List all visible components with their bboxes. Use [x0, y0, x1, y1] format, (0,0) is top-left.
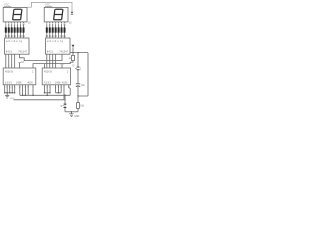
resistor network RN2 (7 segment resistors): [46, 24, 66, 38]
VCC stub on U3 pin 16: [18, 62, 24, 68]
svg-text:4026: 4026: [27, 81, 33, 84]
ground symbol GND1: [5, 93, 15, 100]
svg-text:6283: 6283: [44, 81, 51, 84]
svg-text:GND: GND: [74, 116, 79, 118]
resistor R3: [77, 96, 85, 112]
VCC arrow terminal at DIS2 anode: [71, 12, 74, 15]
svg-text:4026: 4026: [62, 81, 68, 84]
BCD to 7-seg decoder U1 (7447): [5, 38, 30, 54]
wire: U2 BCD lines down to U4: [47, 54, 56, 68]
svg-text:74LS47: 74LS47: [59, 51, 68, 54]
wire: U3 pin to right clock chain: [33, 61, 73, 68]
wire: U1 ripple-blanking run to U2: [20, 54, 62, 60]
pin numbers above decoder (RN2): [46, 36, 67, 38]
ground symbol GND2: [69, 112, 79, 118]
wire: VCC common-anode rail across top: [27, 2, 72, 11]
capacitor C1: [76, 84, 86, 96]
svg-text:6283: 6283: [5, 81, 12, 84]
junction dot at C1 bottom: [77, 95, 78, 96]
wire: reset rail y99.8: [14, 85, 65, 100]
7-segment display DIS2: [44, 7, 68, 23]
BCD to 7-seg decoder U2 (7447): [46, 38, 71, 54]
wire: U3 ground-group pins to rail: [5, 85, 15, 93]
svg-text:abcdefg: abcdefg: [47, 39, 64, 43]
decade counter U3 (4026B): [3, 68, 36, 85]
junction dots on VCC feed: [72, 52, 78, 53]
VCC arrow symbol right column: [72, 45, 75, 53]
svg-text:74LS47: 74LS47: [18, 51, 27, 54]
pin numbers under U4: [44, 87, 70, 89]
junction dots on y95.3 rail: [22, 92, 66, 100]
wire: U4 ground pins short rail y92.8: [56, 85, 62, 93]
pin numbers above decoder (RN1): [5, 36, 26, 38]
wire: bottom rail joining S2 and R3: [65, 111, 78, 113]
svg-text:1458: 1458: [55, 81, 61, 84]
junction dot on U4 ground rail: [58, 92, 59, 93]
svg-text:1458: 1458: [16, 81, 22, 84]
VCC symbol for DIS2: [45, 4, 52, 7]
wire: VCC feed from U2 right to rail: [70, 53, 88, 96]
svg-text:8421: 8421: [47, 50, 54, 54]
svg-text:4026 B: 4026 B: [44, 70, 52, 73]
7-segment display DIS1: [3, 7, 27, 23]
resistor R1 (pull-up): [68, 53, 74, 61]
VCC stub on U4 pin 16: [61, 65, 64, 68]
resistor network RN1 (7 segment resistors): [5, 24, 25, 38]
svg-text:4026 B: 4026 B: [5, 70, 13, 73]
decade counter U4 (4026B): [42, 68, 70, 85]
svg-text:abcdefg: abcdefg: [6, 39, 23, 43]
VCC symbol for DIS1: [4, 4, 11, 7]
wire: U1 BCD lines down to U3: [6, 54, 15, 68]
svg-text:8421: 8421: [6, 50, 13, 54]
pin numbers under display DIS1: [5, 23, 31, 27]
wire: shared rail y95.3 across both counters: [20, 85, 70, 96]
junction dot bottom rail: [71, 111, 72, 112]
switch S1 on clock line: [75, 53, 82, 84]
pin numbers under U3: [4, 87, 34, 89]
junction dot clock branch: [64, 95, 65, 96]
pushbutton S2 on clock branch: [60, 95, 66, 112]
junction dots on U3 ground rail: [4, 92, 15, 93]
pin numbers under display DIS2: [46, 23, 72, 27]
